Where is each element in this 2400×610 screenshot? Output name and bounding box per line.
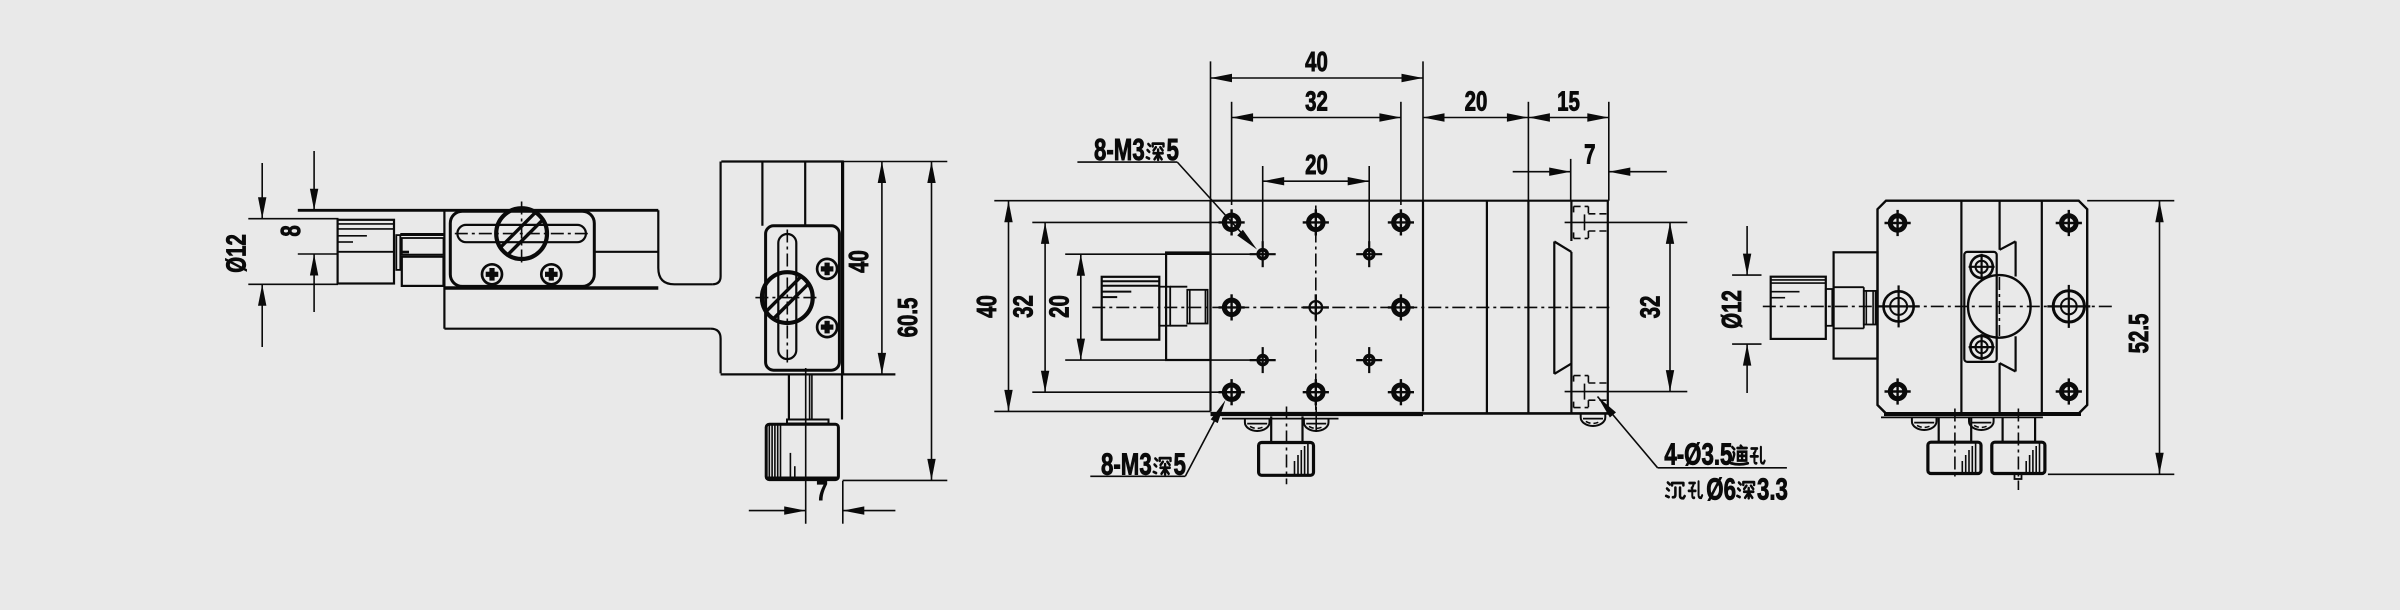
svg-text:Ø12: Ø12 (1717, 290, 1748, 329)
horizontal centerline (1763, 305, 2115, 307)
spindle bottom (1170, 325, 1187, 327)
micrometer X thimble barrel (338, 220, 394, 284)
spring foot (1245, 418, 1270, 431)
top edge (1211, 200, 1609, 202)
ext 32 right (1400, 102, 1402, 205)
arm-plate lower fillet + plate left edge lower (711, 329, 721, 374)
dim 40 top line (1211, 77, 1424, 79)
carriage right edge (2041, 201, 2043, 414)
M3 mounting hole (1224, 300, 1239, 315)
Z micrometer thimble (766, 424, 838, 479)
knurl line partial (338, 241, 353, 243)
arm near edge (1881, 416, 2043, 418)
foot centerline tick (1315, 407, 1317, 432)
svg-text:32: 32 (1009, 295, 1040, 318)
ext 32 bottom right (1565, 391, 1688, 393)
stage right edge + bracket arm top (658, 210, 712, 284)
dovetail lower vertical (2014, 336, 2016, 371)
plate top edge (721, 160, 844, 162)
center line lower (1998, 363, 2000, 413)
Z micrometer seen in top view (1270, 416, 1272, 442)
ext 52.5 bottom (2048, 473, 2174, 475)
corner hole (2062, 384, 2077, 399)
svg-text:20: 20 (1465, 87, 1488, 118)
ext line D12 top (248, 218, 338, 220)
svg-text:8: 8 (276, 225, 307, 236)
plate outline chamfered (1878, 201, 2088, 414)
micrometer mount boss (1166, 253, 1210, 361)
dim 7 right arrow line (1609, 171, 1667, 173)
clamp strip (1964, 252, 1996, 362)
top edge ext left (994, 200, 1210, 202)
svg-text:7: 7 (1584, 140, 1595, 171)
corner hole (1890, 216, 1905, 231)
Z adjustment knob (762, 272, 813, 323)
M3 mounting hole (1224, 385, 1239, 400)
spring foot under plate (1581, 413, 1606, 426)
dim 7 right arrow line (843, 510, 896, 512)
knob vertical centerline (1998, 277, 2000, 336)
body left edge (1209, 201, 1211, 412)
phillips screw (817, 317, 837, 337)
dim 15 line (1528, 117, 1608, 119)
ext 32 left (1231, 102, 1233, 205)
bottom edge right section (1423, 412, 1609, 415)
ext D12 bottom (1732, 343, 1761, 345)
hidden counterbored holes (dashed) (1574, 205, 1589, 207)
plate bottom thick (1884, 412, 2081, 416)
Z spindle rod 2 (811, 374, 813, 419)
phillips screw (541, 264, 561, 284)
phillips screw (817, 259, 837, 279)
phillips screw (482, 264, 502, 284)
socket screw top (1970, 256, 1992, 278)
M3 mounting hole (1394, 215, 1409, 230)
plate bottom edge + ext (721, 373, 896, 375)
corner hole (2062, 216, 2077, 231)
Z base plate face (1527, 201, 1529, 414)
svg-text:7: 7 (816, 476, 827, 507)
dim D12 lower arrow line (261, 284, 263, 347)
X mount boss end view (1834, 252, 1878, 358)
spring foot (1912, 417, 1937, 430)
spring foot (1969, 417, 1994, 430)
corner hole (1890, 384, 1905, 399)
svg-text:32: 32 (1305, 87, 1328, 118)
spindle nut (1864, 291, 1876, 325)
spindle nut (1187, 290, 1207, 324)
ext 40 left (1210, 61, 1212, 200)
vertical centerline (1315, 206, 1317, 411)
micrometer X mount boss (402, 257, 444, 286)
knob circle end view (1968, 275, 2031, 338)
thimble bottom thick (766, 477, 838, 480)
M3 mounting hole (1394, 385, 1409, 400)
plate front face (1607, 201, 1609, 414)
lock collar (1826, 289, 1833, 326)
M3 mounting hole (1309, 385, 1324, 400)
dim 7 left arrow line (749, 510, 806, 512)
dim 7 ext / axis line (805, 368, 807, 524)
ext 20 bottom (1065, 359, 1263, 361)
dim D12 arrows (1743, 254, 1751, 276)
spindle top edge (400, 233, 443, 236)
ext line 8 bottom (298, 253, 339, 255)
svg-text:40: 40 (844, 250, 875, 273)
Z spindle housing right (841, 374, 843, 419)
stage bottom edge (thick) (444, 286, 658, 289)
ext D12 top (1732, 274, 1761, 276)
dim 20 line (1263, 180, 1370, 182)
Z slide slot (778, 234, 796, 359)
bottom edge ext left (994, 410, 1210, 412)
ext line D12 bottom (248, 283, 338, 285)
body right edge (1422, 201, 1424, 412)
dim 32 top line (1232, 117, 1401, 119)
X adjustment knob (496, 208, 547, 259)
X micrometer barrel end view (1771, 277, 1826, 339)
right mid hole (2053, 291, 2084, 322)
dim 32 line (1044, 222, 1046, 392)
ext 32 top right (1565, 221, 1688, 223)
carriage hole (1365, 356, 1374, 365)
Z carriage outer face (1553, 242, 1555, 374)
spring foot (1304, 418, 1329, 431)
bracket arm bottom edge (444, 328, 710, 330)
dim 7 right ext (842, 481, 844, 524)
svg-text:20: 20 (1044, 295, 1075, 318)
barrel mid split (338, 251, 394, 253)
X micrometer thimble (end view) (2001, 417, 2003, 442)
svg-text:15: 15 (1557, 87, 1580, 118)
Z carriage plate (766, 226, 840, 370)
ext line 60.5 bottom (843, 479, 948, 481)
leader 4-D3.5 through holes (1598, 397, 1616, 418)
dovetail upper vertical (2014, 241, 2016, 276)
stage/arm left edge (443, 210, 445, 328)
dim 60.5 line (931, 162, 933, 481)
svg-text:52.5: 52.5 (2124, 314, 2155, 354)
X knob vertical centerline (521, 202, 523, 267)
moving plate split line (594, 251, 658, 253)
svg-text:32: 32 (1636, 296, 1667, 319)
M3 mounting hole (1224, 215, 1239, 230)
svg-text:60.5: 60.5 (893, 298, 924, 338)
carriage hole (1258, 356, 1267, 365)
M3 mounting hole (1394, 300, 1409, 315)
ext 32 bottom (1032, 391, 1231, 393)
dim 40 left line (1008, 201, 1010, 412)
micrometer barrel top view (1102, 277, 1160, 340)
plate inner line 2 (804, 162, 806, 226)
plate back face (1486, 201, 1488, 414)
lock collar (1159, 287, 1170, 326)
carriage left edge (1960, 201, 1962, 414)
spindle sleeve (402, 238, 444, 255)
dim 32 line right (1669, 222, 1671, 391)
plate front mid-lower (1570, 252, 1572, 413)
M3 mounting hole (1309, 215, 1324, 230)
center line upper (1998, 201, 2000, 250)
dovetail upper diagonal (1554, 242, 1571, 252)
center hole (1310, 301, 1323, 314)
Z slot centerline (786, 230, 788, 364)
plate right edge (thick) (841, 162, 844, 375)
ext 15 right (1608, 102, 1610, 201)
carriage hole (1365, 250, 1374, 259)
spindle tick (400, 251, 409, 254)
svg-text:20: 20 (1305, 150, 1328, 181)
thimble knurl (768, 424, 770, 479)
bottom edge (thick) (1211, 412, 1424, 416)
ext 20 top (1065, 253, 1263, 255)
carriage hole (1258, 250, 1267, 259)
svg-text:40: 40 (972, 295, 1003, 318)
arm near edge below (1222, 418, 1339, 420)
ext 15 left (1527, 102, 1529, 201)
left mid hole (1884, 291, 1914, 321)
knurl line (338, 228, 394, 230)
plate front upper (1570, 201, 1572, 241)
thimble tab (2015, 474, 2022, 480)
Z micrometer axis (1286, 407, 1288, 485)
horizontal centerline (1092, 306, 1612, 308)
ext 32 top (1032, 221, 1231, 223)
dim 52.5 line (2159, 201, 2161, 475)
dovetail upper diagonal (2000, 241, 2016, 249)
X slot centerline (455, 233, 590, 235)
ext 20 right (1368, 166, 1370, 246)
knurl line (338, 223, 394, 225)
knurl line partial (338, 235, 367, 237)
X carriage front plate (450, 211, 594, 286)
Z spindle housing left (788, 374, 790, 419)
dim 20 gap line (1423, 117, 1528, 119)
dim 7 left arrow line (1513, 171, 1571, 173)
Z knob horizontal centerline (755, 297, 817, 299)
dim 8 lower arrow line (313, 254, 315, 312)
svg-text:Ø6: Ø6 (1706, 472, 1736, 506)
plate inner line (761, 162, 763, 226)
dovetail lower diagonal (1554, 364, 1571, 374)
Z thimble top view (1259, 443, 1314, 476)
dim D12 upper arrow line (261, 163, 263, 219)
svg-text:4-Ø3.5: 4-Ø3.5 (1664, 437, 1732, 471)
body right edge ext up (1422, 61, 1424, 411)
Z micrometer thimble (end view) (1938, 417, 1940, 442)
dim 8 upper arrow line (313, 151, 315, 210)
arm-plate upper fillet + plate left edge upper (713, 162, 721, 285)
micrometer X lock collar (396, 235, 400, 270)
ext 20 left (1262, 166, 1264, 246)
svg-text:3.3: 3.3 (1757, 472, 1788, 506)
dovetail lower diagonal (2000, 363, 2016, 371)
svg-text:40: 40 (1305, 47, 1328, 78)
Z spindle rod (809, 374, 811, 419)
stage top edge (298, 209, 659, 212)
ext line top dims (843, 161, 948, 163)
dim 20 line (1080, 254, 1082, 360)
ext 52.5 top (2087, 200, 2174, 202)
ext 7 left (1570, 159, 1572, 201)
svg-text:Ø12: Ø12 (222, 234, 253, 273)
dim 40 line (881, 162, 883, 375)
Z micrometer flange (787, 420, 829, 424)
socket screw bottom (1970, 336, 1992, 358)
spindle top (1170, 286, 1187, 288)
X slide slot (457, 225, 586, 242)
